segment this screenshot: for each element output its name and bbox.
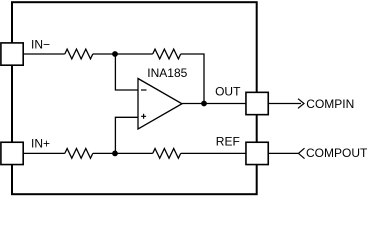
- pin pad IN+: [1, 142, 23, 164]
- pin pad REF: [246, 142, 268, 164]
- svg-text:COMPOUT: COMPOUT: [306, 146, 368, 160]
- node C junction dot (IN+ net): [112, 151, 118, 157]
- wire op-amp output to OUT pin pad: [182, 103, 246, 105]
- wire R4 to REF pin pad: [181, 152, 246, 154]
- svg-text:OUT: OUT: [215, 85, 241, 99]
- node A junction dot (IN- net): [112, 51, 118, 57]
- wire REF pad to COMPOUT arrow: [268, 152, 298, 154]
- resistor R4 (reference-side resistor): [153, 149, 181, 159]
- node B junction dot (output/feedback): [201, 101, 207, 107]
- wire node C to resistor R4: [115, 152, 153, 154]
- wire feedback: R3 to corner then down to output node B: [181, 54, 204, 104]
- svg-text:INA185: INA185: [147, 66, 187, 80]
- op-amp U1 triangle: [138, 79, 182, 130]
- pin pad IN-: [1, 43, 23, 65]
- wire OUT pad to COMPIN arrow: [268, 103, 301, 105]
- svg-text:COMPIN: COMPIN: [306, 97, 354, 111]
- IC boundary rectangle (INA185 package outline): [12, 2, 257, 194]
- op-amp inverting input marker (minus): [141, 89, 147, 91]
- wire R2 to node C: [93, 152, 115, 154]
- resistor R2 (IN+ input resistor): [65, 149, 93, 159]
- svg-text:IN−: IN−: [31, 37, 50, 51]
- wire node A down to op-amp inverting input: [115, 54, 137, 90]
- wire IN- net: pin pad to resistor R1: [23, 53, 65, 55]
- svg-text:IN+: IN+: [31, 137, 50, 151]
- svg-text:REF: REF: [216, 135, 240, 149]
- wire IN+ net: pin pad to resistor R2: [23, 152, 65, 154]
- wire node A to resistor R3: [115, 53, 153, 55]
- wire node C up to op-amp non-inverting input: [115, 117, 137, 153]
- COMPOUT input arrowhead (open chevron pointing left): [299, 148, 305, 158]
- wire R1 to node A: [93, 53, 115, 55]
- op-amp non-inverting input marker (plus): [141, 114, 146, 119]
- resistor R3 (feedback resistor): [153, 49, 181, 59]
- resistor R1 (IN- input resistor): [65, 49, 93, 59]
- COMPIN output arrowhead (open chevron pointing right): [298, 99, 304, 109]
- pin pad OUT: [246, 92, 268, 114]
